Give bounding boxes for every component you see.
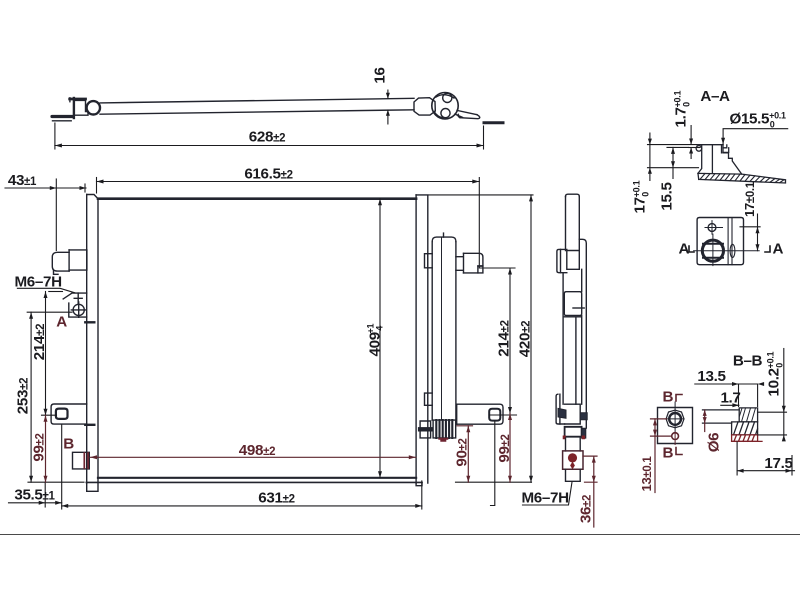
top view drier inner arcs xyxy=(434,95,454,118)
svg-text:B: B xyxy=(63,436,74,453)
top view right tail bracket xyxy=(455,110,480,118)
dim 13±0.1 red xyxy=(651,419,671,493)
top view bar xyxy=(100,98,414,114)
dim 631 line xyxy=(62,504,422,508)
left tank tick upper xyxy=(85,321,94,323)
dim 36 line xyxy=(583,456,597,527)
text 214±2 left xyxy=(31,324,48,360)
svg-text:1.7: 1.7 xyxy=(720,390,740,407)
dim 214/99 left line xyxy=(44,292,48,416)
drier outlet bracket xyxy=(456,253,483,273)
text 409 +1 -4 xyxy=(366,324,385,357)
right oval center tick xyxy=(490,414,517,416)
svg-text:99±2: 99±2 xyxy=(31,433,48,461)
core right edge xyxy=(415,199,417,483)
svg-text:43±1: 43±1 xyxy=(8,172,37,189)
right tank xyxy=(416,195,428,483)
side view upper bracket xyxy=(557,249,579,272)
dim 214 left top tick xyxy=(49,291,63,293)
side view top tube xyxy=(566,194,580,250)
text 214±2 right xyxy=(496,320,513,356)
dim 17±0.1 xyxy=(740,214,760,251)
dim 90 line xyxy=(457,426,473,482)
drier upper clamp tab xyxy=(425,254,433,268)
dim 13.5 line xyxy=(695,382,764,407)
dim 35.5 line xyxy=(9,501,62,505)
dim 409 line xyxy=(378,199,382,478)
top view receiver drier circle xyxy=(432,93,458,119)
top view left bracket plate xyxy=(70,98,86,118)
text 99±2 left xyxy=(31,433,48,461)
oval leader down to M6 label xyxy=(491,421,495,505)
top view left mount tab xyxy=(52,117,73,121)
svg-text:Ø15.5+0.10: Ø15.5+0.10 xyxy=(730,111,786,130)
dim 616.5 right extension down to drier bracket xyxy=(479,178,515,269)
svg-text:M6–7H: M6–7H xyxy=(522,490,569,507)
flange hatch xyxy=(700,174,784,183)
dim 16 line xyxy=(386,90,390,124)
core bottom header double line xyxy=(98,477,416,479)
B-B left square xyxy=(658,402,693,444)
side view back plate xyxy=(579,239,586,428)
drier bottom left cap xyxy=(420,421,431,438)
top view drier port top xyxy=(443,93,452,102)
svg-text:253±2: 253±2 xyxy=(15,378,32,414)
svg-text:409: 409 xyxy=(367,332,384,356)
drier bottom comb xyxy=(433,420,456,438)
bottom reference line left xyxy=(28,481,84,483)
A-A DETAIL xyxy=(632,88,788,266)
svg-text:498±2: 498±2 xyxy=(239,442,275,459)
left tank xyxy=(87,195,98,484)
side view M6 fitting box xyxy=(563,451,583,469)
extension O-hole down xyxy=(61,425,63,509)
core top edge xyxy=(98,197,416,200)
svg-text:628±2: 628±2 xyxy=(249,129,285,146)
text 36±2 xyxy=(578,495,595,523)
side view lower bracket xyxy=(556,394,566,424)
svg-text:36±2: 36±2 xyxy=(578,495,595,523)
svg-text:99±2: 99±2 xyxy=(496,434,513,462)
text 13±0.1 xyxy=(639,456,654,492)
svg-text:-4: -4 xyxy=(375,326,385,334)
svg-text:616.5±2: 616.5±2 xyxy=(244,166,292,183)
section arrow A right xyxy=(765,241,784,258)
extension 35.5 left xyxy=(44,482,46,507)
dim 253 top tick to screw xyxy=(27,311,72,313)
MAIN VIEW DIMENSIONS black xyxy=(9,195,534,509)
A mount bracket xyxy=(63,293,86,317)
top view right hex nut xyxy=(414,98,435,115)
svg-text:17.5: 17.5 xyxy=(764,455,793,472)
text 1.7 +0.1/0 xyxy=(673,91,692,128)
svg-text:B–B: B–B xyxy=(733,353,763,370)
dim 43/628 shared extension xyxy=(55,179,57,251)
dim 214/99 right line xyxy=(508,268,512,414)
svg-text:A–A: A–A xyxy=(700,88,730,105)
side view bottom header xyxy=(565,404,588,438)
SIDE VIEW xyxy=(556,194,587,481)
RIGHT TANK AND DRIER xyxy=(416,195,503,486)
svg-text:B: B xyxy=(663,445,674,462)
svg-text:A: A xyxy=(56,314,67,331)
svg-text:214±2: 214±2 xyxy=(31,324,48,360)
svg-text:B: B xyxy=(663,389,674,406)
svg-text:214±2: 214±2 xyxy=(496,320,513,356)
text 17±0.1 xyxy=(742,181,757,217)
text M6-7H bottom xyxy=(522,482,573,507)
text 420±2 right xyxy=(517,321,534,357)
text 253±2 xyxy=(15,378,32,414)
text 35.5±1 xyxy=(14,487,55,504)
MAIN VIEW DIMENSIONS red xyxy=(44,414,598,528)
dim 628 line xyxy=(55,144,484,148)
text 10.2 +0.1/0 xyxy=(766,351,785,396)
lower left mount bracket xyxy=(51,404,87,424)
dim 628 extension right xyxy=(483,126,485,149)
A-A square part xyxy=(694,218,760,266)
dim 420 line xyxy=(529,195,533,482)
drier bottom red tip xyxy=(439,439,447,441)
MAIN FRONT VIEW xyxy=(51,195,422,492)
dim 253 line xyxy=(29,312,33,482)
text Ø6 xyxy=(706,433,723,453)
bottom rule xyxy=(0,534,800,536)
dim Ø15.5 leader xyxy=(721,129,788,145)
receiver drier body xyxy=(432,233,456,420)
svg-text:420±2: 420±2 xyxy=(517,321,534,357)
right top extension line 420 xyxy=(429,194,533,196)
side view mid box xyxy=(564,292,584,405)
text 90±2 xyxy=(454,438,471,466)
dim 43 line xyxy=(5,184,86,192)
top view drier port bottom xyxy=(441,109,450,118)
flange section part xyxy=(696,145,785,183)
svg-text:17+0.10: 17+0.10 xyxy=(632,180,651,213)
left tank tick lower xyxy=(85,424,94,426)
dim 10.2 line xyxy=(758,349,787,442)
dim 628 extension left xyxy=(54,123,56,149)
text 17 +0.1/0 xyxy=(632,180,651,213)
section arrow B top xyxy=(663,389,683,406)
svg-text:631±2: 631±2 xyxy=(258,490,294,507)
B port xyxy=(73,452,90,469)
top view left bracket block xyxy=(76,100,89,115)
top view right end thick stub xyxy=(484,121,503,124)
B-B section block xyxy=(703,408,758,435)
text B label xyxy=(63,436,74,453)
bottom reference line right xyxy=(456,481,532,483)
svg-text:A: A xyxy=(679,241,690,258)
section arrow B bottom xyxy=(663,445,683,462)
section arrow A left xyxy=(679,241,695,258)
dim 1.7 line B-B xyxy=(721,403,739,407)
dim O-hole tick xyxy=(42,414,57,416)
text 43±1 xyxy=(8,172,37,189)
text 616.5±2 xyxy=(244,166,292,183)
svg-text:Ø6: Ø6 xyxy=(706,433,723,453)
dim 498 line xyxy=(90,455,416,459)
dim 99 right line xyxy=(508,414,512,483)
svg-text:13.5: 13.5 xyxy=(697,368,726,385)
B-B small hole xyxy=(672,432,679,445)
side view lower tube xyxy=(566,438,581,451)
text M6-7H top xyxy=(15,274,75,293)
svg-text:90±2: 90±2 xyxy=(454,438,471,466)
dim 17.5 line xyxy=(737,442,794,475)
svg-text:16: 16 xyxy=(372,67,389,83)
svg-text:13±0.1: 13±0.1 xyxy=(639,456,654,492)
svg-text:17±0.1: 17±0.1 xyxy=(742,181,757,217)
dim 1.7 A-A xyxy=(689,126,701,159)
right tank bottom tab xyxy=(416,482,422,485)
B-B DETAIL xyxy=(639,349,795,493)
dim 99 left line xyxy=(44,415,48,482)
svg-text:35.5±1: 35.5±1 xyxy=(14,487,55,504)
side view strip xyxy=(563,269,582,404)
dim 616.5 line xyxy=(97,178,480,194)
svg-text:1.7+0.10: 1.7+0.10 xyxy=(673,91,692,128)
text 99±2 right xyxy=(496,434,513,462)
svg-text:15.5: 15.5 xyxy=(659,182,676,211)
side view red weld marks xyxy=(563,436,585,440)
dim Ø6 red xyxy=(703,410,707,432)
B-B red thread band xyxy=(732,435,762,442)
text 15.5 xyxy=(659,182,676,211)
text A label xyxy=(56,314,67,331)
core left edge xyxy=(97,199,99,483)
text 631±2 xyxy=(258,490,294,507)
drier lower clamp tab xyxy=(425,393,433,405)
svg-text:A: A xyxy=(773,241,784,258)
dim 17/15.5 extensions xyxy=(648,133,699,181)
text 16 vertical xyxy=(372,67,389,83)
left tank bottom tab xyxy=(87,482,98,491)
text 498±2 xyxy=(239,442,275,459)
svg-text:10.2+0.10: 10.2+0.10 xyxy=(766,351,785,396)
top view left pipe circle xyxy=(87,101,100,114)
extension 631 right xyxy=(421,481,423,509)
upper left pipe bracket xyxy=(52,250,87,274)
side view bottom stub xyxy=(566,469,581,481)
text 628±2 xyxy=(249,129,285,146)
right lower mount bracket with oval xyxy=(457,404,503,424)
